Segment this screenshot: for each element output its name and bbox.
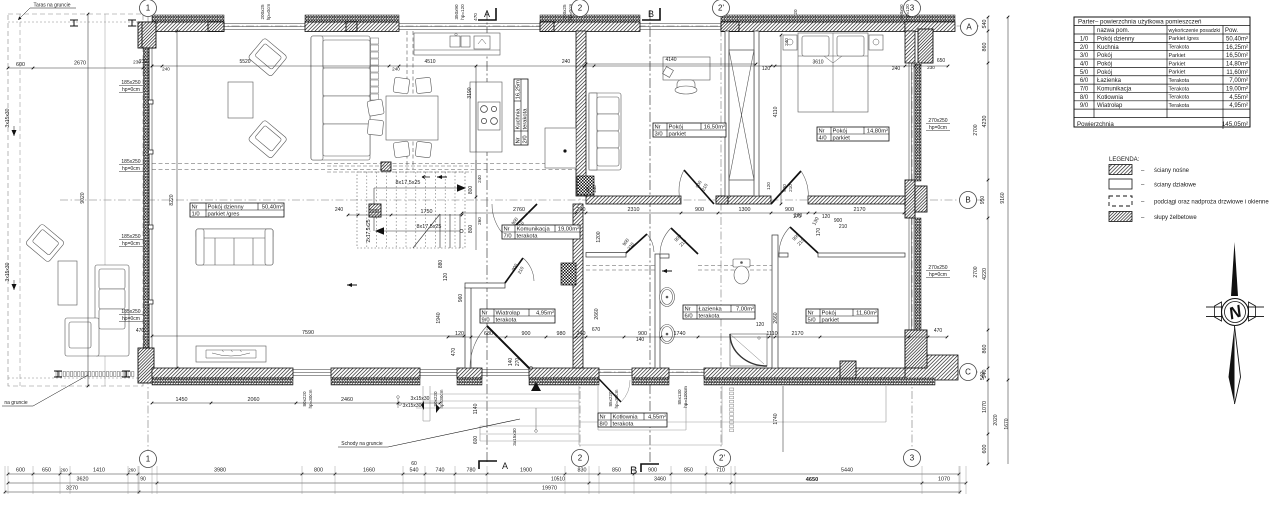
svg-text:350x90: 350x90 — [899, 4, 904, 20]
svg-text:85x130: 85x130 — [677, 389, 682, 405]
svg-text:6/0: 6/0 — [685, 314, 693, 320]
kitchen cabinet right block — [545, 128, 576, 168]
svg-text:Parkiet: Parkiet — [1169, 61, 1186, 67]
svg-text:Parkiet: Parkiet — [1169, 53, 1186, 59]
svg-text:9/0: 9/0 — [482, 318, 490, 324]
svg-text:670: 670 — [592, 327, 601, 333]
svg-text:3x15x30: 3x15x30 — [403, 403, 422, 409]
svg-text:4650: 4650 — [806, 477, 818, 483]
svg-text:600: 600 — [982, 445, 988, 454]
toilet — [733, 259, 750, 284]
left wall corner pillar top — [142, 22, 156, 48]
svg-text:11,60m²: 11,60m² — [856, 311, 877, 317]
door swing small arrows — [422, 176, 430, 179]
svg-text:2/0: 2/0 — [523, 135, 529, 143]
stair dim line 240 800 1750 — [348, 214, 462, 216]
axis circle 1 bottom — [140, 451, 157, 468]
svg-text:50,40m²: 50,40m² — [1226, 36, 1248, 42]
stair beam dashed lines — [327, 165, 472, 167]
svg-text:11,60m²: 11,60m² — [1226, 70, 1248, 76]
svg-text:900: 900 — [782, 184, 787, 192]
terrace L-couch — [65, 265, 129, 356]
svg-text:960: 960 — [458, 294, 464, 303]
svg-text:Kuchnia: Kuchnia — [516, 108, 522, 130]
right dim chain inner — [987, 17, 989, 380]
door bathroom — [671, 228, 698, 254]
axis circle A right — [961, 19, 978, 36]
svg-text:1: 1 — [146, 455, 151, 464]
svg-text:240: 240 — [784, 38, 789, 46]
svg-text:2/0: 2/0 — [1080, 45, 1089, 51]
svg-text:16,50m²: 16,50m² — [704, 125, 725, 131]
section marker B top — [642, 8, 660, 20]
top wall right corner segment — [905, 22, 955, 32]
north compass side bars — [1206, 306, 1222, 308]
svg-text:4,55m²: 4,55m² — [1229, 95, 1248, 101]
terrace outline dashed — [8, 14, 143, 386]
svg-text:parkiet: parkiet — [822, 318, 840, 324]
axis circle B right — [960, 192, 977, 209]
top wall segment 1 with insulation — [152, 22, 224, 32]
svg-text:1410: 1410 — [93, 468, 105, 474]
svg-text:4/0: 4/0 — [819, 136, 827, 142]
svg-text:Wiatrołap: Wiatrołap — [496, 311, 520, 317]
svg-text:20: 20 — [793, 9, 798, 15]
svg-text:19,00m²: 19,00m² — [558, 227, 579, 233]
bottom wall segment 2 — [331, 368, 420, 378]
svg-text:hp=120cm: hp=120cm — [683, 386, 688, 408]
door room 5/0 — [790, 227, 818, 253]
door corridor middle — [626, 234, 647, 253]
window band left wall — [149, 31, 151, 368]
svg-text:900: 900 — [695, 207, 704, 213]
svg-text:3/0: 3/0 — [1080, 53, 1089, 59]
svg-text:8/0: 8/0 — [600, 422, 608, 428]
steel beam symbol bottom-left 2 — [122, 371, 130, 377]
svg-text:5/0: 5/0 — [808, 318, 816, 324]
svg-text:140: 140 — [508, 358, 514, 367]
svg-text:8220: 8220 — [169, 194, 175, 205]
svg-text:słupy żelbetowe: słupy żelbetowe — [1154, 215, 1197, 221]
svg-text:hp=30cm: hp=30cm — [439, 389, 444, 408]
svg-text:Nr: Nr — [482, 311, 488, 317]
section marker A bottom — [479, 461, 497, 469]
svg-text:85x220: 85x220 — [608, 391, 613, 407]
axis circle 2 bottom — [572, 450, 589, 467]
svg-text:3460: 3460 — [654, 477, 666, 483]
dim chain left terrace y68 — [8, 67, 143, 69]
washbasin 2 — [660, 325, 675, 344]
axis circle 3 top — [904, 0, 921, 17]
armchair rotated 1 — [248, 38, 288, 77]
svg-text:Terakota: Terakota — [1169, 103, 1190, 109]
left wall corner pillar bottom — [138, 348, 154, 383]
svg-text:3980: 3980 — [214, 468, 226, 474]
svg-text:4,95m²: 4,95m² — [536, 311, 554, 317]
wardrobe with X room3/4 — [729, 50, 754, 180]
svg-text:parkiet /gres: parkiet /gres — [208, 212, 240, 218]
svg-text:Pow.: Pow. — [1225, 28, 1238, 34]
svg-text:8x17,5x25: 8x17,5x25 — [417, 224, 442, 230]
stair pillar upper — [381, 162, 391, 171]
stair vertical dim 800 240 800 260 — [475, 160, 477, 250]
svg-text:850: 850 — [612, 468, 621, 474]
bottom dim row y492 — [5, 491, 960, 493]
svg-text:185x250: 185x250 — [121, 234, 140, 240]
svg-text:3/0: 3/0 — [655, 132, 663, 138]
staircase dotted tread lines — [366, 172, 368, 248]
svg-text:210: 210 — [788, 184, 793, 192]
svg-text:540: 540 — [410, 468, 419, 474]
svg-text:80x220: 80x220 — [433, 391, 438, 407]
couch room 3/0 — [589, 93, 621, 170]
axis 3 grid line — [911, 14, 913, 450]
svg-text:185x250: 185x250 — [121, 80, 140, 86]
svg-text:230: 230 — [139, 59, 148, 65]
right top corner pillar — [918, 29, 933, 63]
svg-text:740: 740 — [436, 468, 445, 474]
svg-text:terakota: terakota — [523, 108, 529, 130]
corridor wall pillar — [716, 196, 728, 204]
chair room 3/0 — [677, 80, 695, 93]
chimney block at corridor junction — [577, 176, 594, 195]
kitchen counter top with sink — [414, 33, 500, 55]
svg-text:Nr: Nr — [655, 125, 661, 131]
svg-text:2': 2' — [718, 4, 724, 13]
svg-text:7/0: 7/0 — [504, 234, 512, 240]
svg-text:Nr: Nr — [819, 129, 825, 135]
svg-text:650: 650 — [937, 58, 946, 64]
svg-text:Nr: Nr — [600, 415, 606, 421]
top wall segment 3 with insulation — [540, 22, 640, 32]
terrace armchair rotated — [25, 223, 65, 262]
svg-text:hp=0cm: hp=0cm — [122, 241, 140, 247]
svg-text:Nr: Nr — [504, 227, 510, 233]
svg-text:3x15x30: 3x15x30 — [411, 396, 430, 402]
svg-text:Kotłownia: Kotłownia — [613, 415, 639, 421]
bottom-right corner pillar — [905, 330, 927, 368]
svg-text:850: 850 — [684, 468, 693, 474]
svg-text:3x15x30: 3x15x30 — [512, 428, 517, 446]
top wall pillar at x540 — [540, 22, 554, 32]
dim chain left outer 9020 — [87, 14, 89, 386]
svg-text:10510: 10510 — [551, 477, 565, 483]
axis circle 2' bottom — [714, 450, 731, 467]
door room 3/0 — [684, 170, 714, 204]
svg-text:1200: 1200 — [596, 231, 602, 242]
svg-text:900: 900 — [522, 331, 531, 337]
svg-text:Parkiet: Parkiet — [1169, 70, 1186, 76]
steel beam symbol bottom-left 1 — [54, 371, 62, 377]
bathroom wall left vertical — [655, 254, 660, 368]
svg-text:16,50m²: 16,50m² — [1226, 53, 1248, 59]
svg-text:terakota: terakota — [517, 234, 539, 240]
svg-text:470: 470 — [136, 328, 145, 334]
svg-text:Terakota: Terakota — [1169, 78, 1190, 84]
svg-text:Powierzchnia: Powierzchnia — [1077, 121, 1114, 128]
svg-text:3x15x30: 3x15x30 — [5, 262, 11, 281]
svg-text:185x250: 185x250 — [121, 309, 140, 315]
svg-text:980: 980 — [557, 331, 566, 337]
svg-text:4/0: 4/0 — [1080, 61, 1089, 67]
corridor wall horizontal segment 4 — [808, 196, 905, 204]
svg-text:A: A — [484, 9, 490, 19]
dim chain left inner 8220 — [176, 31, 178, 368]
axis C grid line — [560, 371, 985, 373]
svg-text:Terakota: Terakota — [1169, 86, 1190, 92]
svg-text:120: 120 — [822, 214, 831, 220]
north compass needle bottom — [1229, 326, 1235, 404]
window band bottom wall — [152, 369, 935, 371]
svg-text:140: 140 — [636, 337, 645, 343]
svg-text:4140: 4140 — [665, 57, 676, 63]
svg-text:200x25: 200x25 — [562, 4, 567, 20]
bathroom wall top — [660, 254, 669, 258]
axis B grid line — [60, 199, 985, 201]
svg-text:240: 240 — [892, 66, 901, 72]
pillow left — [802, 36, 829, 56]
svg-text:1300: 1300 — [739, 207, 751, 213]
svg-text:B: B — [630, 465, 637, 477]
desk room 3/0 — [663, 57, 710, 80]
svg-text:2060: 2060 — [248, 397, 260, 403]
svg-text:Pokój: Pokój — [1097, 53, 1112, 59]
svg-text:Parter– powierzchnia użytkowa: Parter– powierzchnia użytkowa pomieszcze… — [1078, 19, 1202, 26]
dim 7590 living bottom — [152, 335, 464, 337]
bottom dim row 1 left — [152, 402, 440, 404]
room5 top wall 2 — [818, 253, 905, 257]
armchair rotated 2 — [248, 120, 288, 159]
dim chain room4 top — [771, 65, 915, 67]
svg-text:210: 210 — [839, 224, 848, 230]
svg-text:Pokój: Pokój — [822, 311, 837, 317]
svg-text:podciągi oraz nadproża drzwiow: podciągi oraz nadproża drzwiowe i okienn… — [1154, 200, 1269, 206]
svg-text:2': 2' — [719, 454, 725, 463]
svg-text:B: B — [965, 196, 970, 205]
svg-text:9160: 9160 — [1000, 192, 1006, 203]
wardrobe partition left — [725, 31, 729, 196]
svg-text:800: 800 — [468, 186, 474, 195]
entry door wiatrolap — [487, 326, 529, 368]
door room 4/0 — [771, 171, 801, 204]
room label 7/0 komunikacja — [502, 225, 580, 240]
right dim chain bottom 2020 1670 — [987, 380, 989, 464]
svg-text:860: 860 — [982, 43, 988, 52]
svg-text:Terakota: Terakota — [1169, 45, 1190, 51]
svg-text:Parkiet /gres: Parkiet /gres — [1169, 36, 1200, 42]
kotlownia outline gray — [423, 386, 886, 445]
bottom wall segment 1 — [152, 368, 293, 378]
axis circle 1 top — [140, 0, 157, 17]
svg-text:B: B — [648, 9, 654, 19]
nightstand right — [869, 35, 883, 50]
svg-text:parkiet: parkiet — [669, 132, 687, 138]
room label 5/0 pokoj — [806, 309, 878, 324]
kotlownia insulation dotted column — [730, 388, 734, 391]
svg-text:hp=0cm: hp=0cm — [122, 87, 140, 93]
svg-text:900: 900 — [785, 207, 794, 213]
dining chairs bottom — [393, 141, 432, 158]
sofa L-shape living room — [311, 36, 370, 160]
svg-text:Łazienka: Łazienka — [1097, 78, 1122, 84]
svg-text:1940: 1940 — [436, 312, 442, 323]
room5 top wall — [779, 253, 788, 257]
svg-text:80x220: 80x220 — [302, 391, 307, 407]
svg-text:540: 540 — [982, 20, 988, 29]
svg-text:540: 540 — [980, 372, 986, 381]
beam dashed line kitchen/living horizontal — [152, 163, 577, 165]
svg-text:710: 710 — [716, 468, 725, 474]
svg-text:hp=30cm: hp=30cm — [614, 389, 619, 408]
svg-text:Kotłownia: Kotłownia — [1097, 95, 1124, 101]
legend item sciany nosne — [1109, 165, 1132, 175]
svg-text:2700: 2700 — [973, 124, 979, 135]
svg-text:240: 240 — [392, 67, 400, 72]
svg-text:240: 240 — [162, 67, 170, 72]
top wall segment 4 with insulation — [721, 22, 905, 32]
svg-text:hp=0cm: hp=0cm — [122, 166, 140, 172]
svg-text:hp=120: hp=120 — [905, 4, 910, 20]
svg-text:1660: 1660 — [363, 468, 375, 474]
svg-text:2670: 2670 — [74, 61, 86, 67]
dim chain corridor y213 — [462, 212, 904, 214]
room label 3/0 pokoj — [653, 123, 726, 138]
svg-text:1740: 1740 — [674, 331, 686, 337]
svg-text:1740: 1740 — [773, 413, 779, 424]
svg-text:1070: 1070 — [982, 401, 988, 413]
svg-text:120: 120 — [762, 66, 771, 72]
svg-text:800: 800 — [314, 468, 323, 474]
svg-text:Pokój: Pokój — [669, 125, 684, 131]
left wall insulation strip — [144, 48, 149, 348]
dining chair left2 — [367, 119, 383, 135]
svg-text:1450: 1450 — [176, 397, 188, 403]
svg-text:5440: 5440 — [841, 468, 853, 474]
svg-text:2310: 2310 — [628, 207, 640, 213]
door corridor to living — [505, 204, 537, 236]
svg-text:350x90: 350x90 — [454, 4, 459, 20]
svg-text:hp=0cm: hp=0cm — [929, 125, 947, 131]
svg-text:4110: 4110 — [773, 106, 779, 117]
svg-text:Terakota: Terakota — [1169, 95, 1190, 101]
bathroom/room5 wall vertical — [772, 235, 778, 368]
svg-text:14,80m²: 14,80m² — [867, 129, 888, 135]
stair pillar lower — [369, 204, 381, 217]
svg-text:1070: 1070 — [938, 477, 950, 483]
room label 4/0 pokoj — [817, 127, 889, 142]
svg-text:2: 2 — [578, 454, 583, 463]
svg-text:hp=30cm: hp=30cm — [308, 389, 313, 408]
svg-text:170: 170 — [816, 228, 822, 237]
svg-text:3x15x30: 3x15x30 — [5, 108, 11, 127]
svg-text:830: 830 — [578, 468, 587, 474]
beam dashed corridor 1 — [586, 265, 655, 267]
wiatrolap wall top — [465, 283, 505, 288]
svg-text:120: 120 — [443, 273, 449, 282]
svg-text:LEGENDA:: LEGENDA: — [1109, 157, 1140, 163]
svg-text:2700: 2700 — [973, 266, 979, 277]
svg-text:C: C — [965, 368, 971, 377]
svg-text:ściany działowe: ściany działowe — [1154, 183, 1197, 189]
svg-text:4510: 4510 — [424, 59, 435, 65]
exterior stairs gray lines — [416, 394, 579, 441]
legend item sciany dzialowe — [1109, 179, 1132, 189]
svg-text:Nr: Nr — [685, 307, 691, 313]
axis circle C right — [960, 364, 977, 381]
axis 1 grid line — [147, 14, 149, 452]
dim 4110 room4 vertical — [780, 35, 782, 204]
TV cabinet with curve — [196, 346, 266, 362]
wiatrolap wall left vertical — [465, 287, 471, 368]
svg-text:470: 470 — [451, 348, 457, 357]
corridor wall horizontal segment 2 — [718, 196, 771, 204]
svg-text:3620: 3620 — [77, 477, 89, 483]
svg-text:8/0: 8/0 — [1080, 95, 1089, 101]
svg-text:600: 600 — [473, 436, 479, 445]
svg-text:7,00m²: 7,00m² — [736, 307, 754, 313]
svg-text:60: 60 — [411, 461, 417, 467]
svg-text:800: 800 — [370, 209, 379, 215]
svg-text:50,40m²: 50,40m² — [262, 205, 283, 211]
svg-text:9/0: 9/0 — [1080, 103, 1089, 109]
svg-text:5520: 5520 — [239, 59, 250, 65]
bottom wall segment 4 (entry) — [529, 368, 599, 378]
staircase dotted outline — [357, 172, 465, 248]
window band right wall — [908, 60, 910, 360]
svg-text:Nr: Nr — [516, 137, 522, 143]
svg-text:Pokój: Pokój — [1097, 61, 1112, 67]
svg-text:4,55m²: 4,55m² — [648, 415, 666, 421]
svg-text:wykończenie posadzki: wykończenie posadzki — [1169, 28, 1221, 34]
svg-text:16,25m²: 16,25m² — [1226, 45, 1248, 51]
svg-text:860: 860 — [982, 345, 988, 354]
corridor wall horizontal segment 1 — [586, 196, 681, 204]
svg-text:90: 90 — [140, 477, 146, 483]
beam dashed corridor 2 — [698, 265, 772, 267]
svg-text:Nr: Nr — [192, 205, 198, 211]
svg-text:1670: 1670 — [1004, 418, 1010, 429]
svg-text:1900: 1900 — [520, 468, 532, 474]
svg-text:120: 120 — [766, 182, 771, 190]
dimension guide verticals bottom — [7, 466, 9, 494]
interior wall kitchen/room3 vertical upper — [576, 31, 586, 196]
steel beam symbol top-left 2 — [128, 20, 136, 26]
right wall insulation strip — [915, 63, 921, 181]
top wall pillar at x208 — [208, 22, 224, 32]
section marker A top — [478, 8, 496, 20]
svg-text:240: 240 — [477, 175, 482, 183]
right dim chain outer 9160 — [1007, 17, 1009, 380]
svg-text:780: 780 — [467, 468, 476, 474]
terrace side table — [58, 261, 77, 305]
dim right of 4510 — [584, 65, 781, 67]
right wall upper segment — [905, 31, 915, 63]
svg-text:400: 400 — [585, 185, 590, 193]
svg-text:270x250: 270x250 — [928, 118, 947, 124]
svg-text:145,05m²: 145,05m² — [1222, 121, 1248, 128]
svg-text:1/0: 1/0 — [192, 212, 200, 218]
dim 4140 room3 — [586, 63, 756, 65]
dining chairs top — [393, 77, 432, 94]
svg-text:1110: 1110 — [766, 331, 777, 337]
svg-text:7590: 7590 — [302, 330, 314, 336]
door wiatrolap to corridor — [505, 258, 523, 283]
svg-text:260: 260 — [477, 217, 482, 225]
svg-text:1: 1 — [146, 4, 151, 13]
svg-text:2460: 2460 — [341, 397, 353, 403]
bottom main dim row y474 — [8, 473, 959, 475]
svg-text:terakota: terakota — [613, 422, 635, 428]
